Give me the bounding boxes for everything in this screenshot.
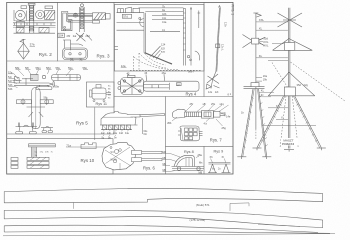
capstan left bracket plates xyxy=(62,12,73,31)
panel Rys5 bottom horizontal y=134 xyxy=(7,133,114,135)
davit spar double line xyxy=(216,8,220,72)
svg-text:9 h: 9 h xyxy=(111,151,115,154)
label 57d boxed xyxy=(122,14,131,18)
davit hook on funnel xyxy=(140,19,144,27)
outer border frame xyxy=(7,2,233,174)
arrows to derrick fitting xyxy=(259,39,263,40)
svg-text:Xh: Xh xyxy=(210,155,214,159)
mast double vertical xyxy=(183,8,185,65)
svg-text:59o: 59o xyxy=(68,66,73,70)
aft post xyxy=(198,11,200,29)
left border ticks xyxy=(115,46,119,48)
tie bar xyxy=(262,125,316,127)
davit base lines xyxy=(172,166,205,168)
panel divider column left x=204 xyxy=(203,2,205,96)
tripod rear legs dashed xyxy=(280,96,286,148)
mast rear vertical xyxy=(190,10,192,66)
leader horizontal xyxy=(268,59,288,61)
svg-text:KL: KL xyxy=(259,54,263,58)
svg-text:08b 7: 08b 7 xyxy=(188,70,195,74)
dashed stay short xyxy=(272,63,288,89)
panel divider row1 bottom left horizontal y=61 xyxy=(7,60,114,62)
barbette support posts xyxy=(101,125,132,130)
svg-text:57d: 57d xyxy=(123,15,128,19)
svg-text:KI: KI xyxy=(276,104,279,108)
windlass legs xyxy=(14,28,56,34)
lath 3 (thin bottom) xyxy=(4,225,318,232)
svg-text:12a: 12a xyxy=(121,64,126,68)
derrick yard diagonals xyxy=(243,35,252,41)
svg-text:58d: 58d xyxy=(46,66,51,70)
panel box Rys10 xyxy=(7,139,113,174)
svg-text:d8a: d8a xyxy=(198,153,203,157)
svg-text:2al: 2al xyxy=(73,34,77,38)
svg-text:58s: 58s xyxy=(56,66,61,70)
panel divider Rys8/Rys9 vertical x=204 xyxy=(203,146,205,174)
svg-text:W 30: W 30 xyxy=(111,158,117,161)
svg-text:19b: 19b xyxy=(263,79,268,82)
svg-text:58c: 58c xyxy=(44,96,49,100)
front view right small xyxy=(41,127,53,133)
svg-text:26k: 26k xyxy=(79,34,84,38)
turret house side xyxy=(101,111,136,125)
svg-text:26L: 26L xyxy=(70,58,75,61)
svg-text:4.b: 4.b xyxy=(204,122,208,126)
engine nacelle xyxy=(31,74,39,80)
svg-text:58l: 58l xyxy=(25,66,29,70)
derrick fitting box xyxy=(252,38,259,44)
label row with boxed 104 xyxy=(58,33,64,37)
gun barrels side xyxy=(127,114,140,117)
svg-text:Rys 4: Rys 4 xyxy=(186,91,197,96)
label underlines top row xyxy=(16,70,89,77)
svg-text:g 1: g 1 xyxy=(228,92,232,96)
derrick legs xyxy=(242,89,268,157)
panel divider Rys6/Rys7 vertical x=165.5 xyxy=(165,97,167,175)
trestle stand xyxy=(209,162,231,164)
compass diamond stem xyxy=(20,39,26,43)
windlass small top fittings xyxy=(21,6,27,9)
leader XL xyxy=(256,29,288,31)
svg-text:41a: 41a xyxy=(162,20,167,24)
float struts xyxy=(29,112,34,117)
svg-text:(M+E) 571: (M+E) 571 xyxy=(196,203,210,207)
panel divider main vertical x=114 xyxy=(113,2,115,134)
71a underline leader xyxy=(66,146,109,148)
svg-text:35d: 35d xyxy=(263,37,268,41)
svg-text:44e: 44e xyxy=(125,132,130,135)
svg-text:XL: XL xyxy=(259,26,263,30)
svg-text:Rys 9: Rys 9 xyxy=(214,150,224,154)
wings on plan view xyxy=(17,100,32,104)
leader XXL xyxy=(256,21,288,23)
capstan shafts xyxy=(68,13,93,22)
diagonal tackle lines xyxy=(76,33,92,41)
svg-text:57f: 57f xyxy=(161,50,165,54)
svg-text:46a: 46a xyxy=(162,71,167,75)
dashed stay long xyxy=(291,62,346,101)
spar mid fitting xyxy=(216,44,220,48)
left label leaders xyxy=(9,74,19,88)
svg-text:44a: 44a xyxy=(113,132,118,135)
svg-text:35d: 35d xyxy=(297,83,302,87)
svg-text:104: 104 xyxy=(59,34,64,38)
tripod pole double xyxy=(287,8,289,149)
svg-text:XXL: XXL xyxy=(259,18,265,22)
svg-text:44d: 44d xyxy=(119,132,124,135)
lath 2 inner line xyxy=(258,224,300,226)
svg-text:RYS. 1: RYS. 1 xyxy=(231,5,235,16)
lower platform triangle xyxy=(268,72,289,96)
panel divider Rys2/Rys3 vertical xyxy=(57,2,59,61)
upper platform triangle xyxy=(273,39,289,51)
derrick pole xyxy=(255,13,257,129)
svg-text:54i: 54i xyxy=(8,75,12,79)
turret plan outline xyxy=(102,143,135,170)
side-view leader vertical xyxy=(94,107,96,140)
svg-text:44b: 44b xyxy=(107,132,112,135)
stacked strips xyxy=(27,157,49,160)
deck line xyxy=(117,12,145,14)
leader to tripod platform xyxy=(272,43,288,45)
pompom mount front view xyxy=(180,126,200,141)
pompom ammo feed blob xyxy=(172,109,186,118)
windlass left drum xyxy=(14,10,27,27)
horizontals to mast xyxy=(139,7,184,9)
leader KL xyxy=(256,57,288,59)
davit swan-neck arm xyxy=(174,155,195,166)
svg-text:XXL: XXL xyxy=(263,44,269,48)
svg-text:Rys. 2: Rys. 2 xyxy=(39,52,52,57)
svg-text:KL: KL xyxy=(261,89,265,93)
lath 2 (middle) xyxy=(4,210,323,227)
svg-text:d5r: d5r xyxy=(190,102,194,106)
leader ticks xyxy=(127,74,129,76)
rangefinder body xyxy=(121,78,144,95)
svg-text:12b: 12b xyxy=(224,22,228,27)
svg-text:d5g: d5g xyxy=(222,126,227,130)
svg-text:s2q: s2q xyxy=(220,102,225,106)
anchor at davit foot xyxy=(213,72,216,81)
motor body xyxy=(92,88,106,99)
panel box funnel/superstructure xyxy=(115,4,205,71)
svg-text:Rys. 7: Rys. 7 xyxy=(210,138,223,143)
top bar with posts xyxy=(29,144,56,147)
svg-text:26d: 26d xyxy=(85,34,90,38)
left label leaders xyxy=(163,153,200,171)
davit arc right xyxy=(195,51,200,60)
deck fittings xyxy=(118,9,124,13)
svg-text:12s: 12s xyxy=(208,90,213,94)
pompom barrel hatched xyxy=(185,112,202,117)
derrick truck and pennant xyxy=(253,12,258,14)
tripod feet xyxy=(253,147,262,149)
svg-text:58o: 58o xyxy=(83,66,88,70)
svg-text:Mb: Mb xyxy=(163,168,167,172)
svg-text:58k: 58k xyxy=(15,66,20,70)
main float plan view xyxy=(32,88,41,129)
superstructure deck levels xyxy=(117,22,145,24)
panel box Rys11 xyxy=(86,82,114,107)
tripod front legs xyxy=(257,96,321,148)
label leader fan xyxy=(172,105,229,126)
svg-text:Rys 8: Rys 8 xyxy=(184,150,194,154)
crossed yards xyxy=(278,13,303,27)
svg-text:Rys 11: Rys 11 xyxy=(96,102,108,106)
derrick feet xyxy=(237,156,246,158)
svg-text:14e: 14e xyxy=(226,115,231,119)
bottom-most long line xyxy=(3,234,335,236)
svg-text:12t: 12t xyxy=(215,90,219,94)
svg-text:62f: 62f xyxy=(161,46,165,50)
compass diamond xyxy=(18,43,30,59)
svg-text:Rys 5: Rys 5 xyxy=(76,121,88,126)
lath 2 scarf joint step xyxy=(230,203,249,211)
seaplane side view xyxy=(13,77,55,90)
left squares xyxy=(11,158,18,161)
gun barrels plan xyxy=(132,150,142,154)
stepped bracket part xyxy=(81,143,96,149)
svg-text:X: X xyxy=(281,116,283,120)
lath 1 (top) xyxy=(4,188,323,203)
svg-text:Rys. 3: Rys. 3 xyxy=(97,54,110,59)
front view left xyxy=(16,123,38,134)
leader vertical long xyxy=(141,118,143,134)
svg-text:M8: M8 xyxy=(199,170,203,174)
svg-text:54b: 54b xyxy=(8,87,13,91)
svg-text:42b: 42b xyxy=(162,12,167,16)
svg-text:d5b: d5b xyxy=(167,121,172,125)
leader fan lines xyxy=(103,130,129,136)
lower platform box xyxy=(284,87,295,96)
svg-text:KXL: KXL xyxy=(263,40,269,44)
funnel raked diagonal xyxy=(145,53,172,64)
pompom carriage xyxy=(202,111,214,119)
svg-text:54f: 54f xyxy=(8,79,12,83)
svg-text:54h: 54h xyxy=(8,83,13,87)
upper platform box xyxy=(284,43,295,51)
svg-text:Md: Md xyxy=(163,150,167,154)
svg-text:PRZEDNI: PRZEDNI xyxy=(282,142,295,146)
svg-text:s8r: s8r xyxy=(203,102,207,106)
capstan chain column xyxy=(80,4,85,32)
svg-text:124: 124 xyxy=(161,43,166,47)
leaders 19a/19b xyxy=(256,77,262,79)
svg-text:Rys. 6: Rys. 6 xyxy=(143,165,156,170)
svg-text:59a: 59a xyxy=(55,85,60,89)
svg-text:57a: 57a xyxy=(8,70,13,74)
capstan right hatched box xyxy=(93,13,111,23)
svg-text:12c L: 12c L xyxy=(221,44,225,51)
panel divider Rys7 bottom y=146.3 xyxy=(166,145,234,147)
windlass chain column xyxy=(28,3,35,33)
svg-text:22g: 22g xyxy=(304,83,309,87)
svg-text:71a: 71a xyxy=(66,143,71,147)
svg-text:37b: 37b xyxy=(30,43,35,47)
svg-text:Mb: Mb xyxy=(163,156,167,160)
windlass deck band xyxy=(13,21,56,27)
rangefinder arm housing xyxy=(144,81,200,91)
svg-text:25s: 25s xyxy=(211,102,216,106)
svg-text:KI: KI xyxy=(261,93,264,97)
panel divider Rys4 bottom y=96.5 xyxy=(115,96,234,98)
svg-text:(17B 12 bis): (17B 12 bis) xyxy=(190,218,206,222)
lath 1 joint tick xyxy=(73,203,75,209)
svg-text:Rys 10: Rys 10 xyxy=(81,158,95,163)
svg-text:41c: 41c xyxy=(162,16,167,20)
bollard pedestal and foot xyxy=(63,40,88,60)
label leaders 124/62f/57f xyxy=(151,46,161,57)
wing top view band xyxy=(52,75,81,81)
dashed superstructure hidden lines xyxy=(130,53,202,70)
derrick platform xyxy=(244,86,265,88)
funnel vertical xyxy=(143,13,145,53)
svg-text:58m: 58m xyxy=(36,66,42,70)
windlass right gear and hatched gypsy xyxy=(36,10,55,19)
label MASZT PRZEDNI xyxy=(281,138,298,146)
svg-text:61t: 61t xyxy=(144,133,148,136)
davit rollers xyxy=(177,167,180,170)
svg-text:26f: 26f xyxy=(67,34,71,38)
dimension leaders left of tripod xyxy=(268,107,288,109)
